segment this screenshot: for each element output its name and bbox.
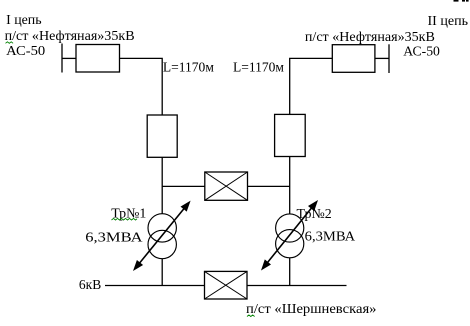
svg-text:п/ст «Шершневская»: п/ст «Шершневская»: [246, 302, 377, 317]
svg-text:АС-50: АС-50: [403, 45, 440, 60]
regulation arrow T1 (double-headed): [133, 201, 191, 271]
wire: tie breaker to right feeder: [248, 185, 290, 187]
svg-text:I цепь: I цепь: [6, 13, 42, 28]
svg-text:п/ст «Нефтяная»35кВ: п/ст «Нефтяная»35кВ: [5, 29, 135, 44]
line impedance box W1 (left 35kV line): [76, 45, 120, 73]
transformer T1 (two-winding): [148, 214, 176, 259]
wire: left feeder to tie breaker: [162, 185, 205, 187]
transformer T2 (two-winding): [276, 214, 304, 258]
regulation arrow T2 (double-headed): [261, 200, 318, 271]
sectional breaker QB2 (crossed box, bottom): [205, 271, 248, 299]
6kV bus wire (right part): [247, 285, 347, 287]
svg-text:L=1170м: L=1170м: [163, 61, 214, 76]
wire: T1 to 6kV bus: [161, 259, 163, 286]
spellcheck squiggle under п (bottom): [247, 315, 255, 317]
wire: left terminal to line box W1: [62, 57, 76, 59]
tie breaker QB1 (crossed box, middle): [205, 172, 248, 200]
svg-text:6кВ: 6кВ: [79, 278, 101, 293]
wire: right feeder corner down to Q2: [290, 58, 333, 114]
spellcheck squiggle under Тр№: [112, 218, 138, 220]
6kV bus wire (left part): [105, 285, 205, 287]
switch box Q2 (right vertical box): [275, 114, 306, 156]
wire: T2 to 6kV bus: [289, 258, 291, 286]
svg-text:II цепь: II цепь: [428, 14, 469, 29]
wire: Q2 down to transformer T2: [289, 157, 291, 214]
wire: Q1 down to transformer T1: [161, 157, 163, 213]
left source terminal tick: [61, 44, 63, 73]
wire: W2 to right terminal: [375, 57, 389, 59]
svg-text:АС-50: АС-50: [6, 44, 45, 59]
line impedance box W2 (right 35kV line): [332, 45, 375, 73]
right source terminal tick: [388, 44, 390, 73]
svg-text:п/ст «Нефтяная»35кВ: п/ст «Нефтяная»35кВ: [305, 30, 435, 45]
cropped text fragment top-right: [454, 0, 469, 2]
svg-text:6,3МВА: 6,3МВА: [305, 230, 356, 245]
wire: W1 to left feeder corner and down: [120, 58, 163, 115]
svg-text:6,3МВА: 6,3МВА: [85, 230, 143, 245]
spellcheck squiggle under п (left): [6, 42, 14, 44]
switch box Q1 (left vertical box): [147, 115, 177, 157]
svg-text:L=1170м: L=1170м: [233, 61, 284, 76]
